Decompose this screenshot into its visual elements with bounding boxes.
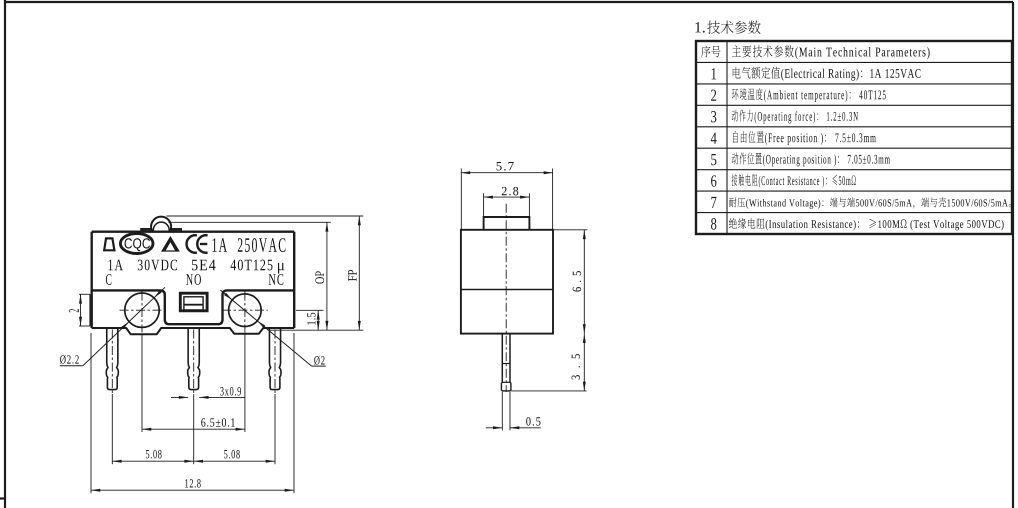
- mounting hole left: [125, 293, 159, 327]
- plunger inner arc: [153, 222, 169, 231]
- parameters table grid: [696, 41, 1012, 234]
- pin 2 (NO terminal): [188, 328, 200, 390]
- hole right centerlines: [222, 309, 268, 311]
- button side tab left: [141, 229, 151, 232]
- dimension 5.08 right: [194, 460, 275, 462]
- triangle certification mark: [161, 236, 180, 252]
- terminal label NC: [269, 274, 284, 285]
- dimension 0.5 pin width side: [501, 392, 503, 430]
- label diameter 2: [314, 356, 324, 365]
- extension line body bottom right: [268, 329, 364, 331]
- dimension 5.7 overall width side: [460, 169, 462, 230]
- side view button: [484, 217, 530, 230]
- extension lines pin centers: [111, 394, 113, 464]
- table row 6: [711, 175, 716, 186]
- dimension 12.8 overall width: [91, 489, 294, 491]
- dimension FP: [358, 216, 360, 330]
- table row 8: [711, 218, 716, 229]
- extension lines hole centers: [141, 334, 143, 432]
- CQC logo oval: [120, 234, 153, 254]
- switch body front view outline: [92, 232, 295, 328]
- button side tab right: [172, 229, 182, 232]
- table title 1. technical parameters: [695, 22, 704, 32]
- NO window: [180, 293, 207, 311]
- pin 1 (C terminal): [106, 328, 118, 390]
- pin 3 (NC terminal): [269, 328, 281, 390]
- hole right: [229, 294, 262, 327]
- hole diameter leader 2.2: [154, 290, 162, 298]
- extension lines body edges: [90, 333, 92, 493]
- dimension 6.5 body height side: [554, 229, 588, 231]
- dimension 3.5 pin length side: [511, 390, 586, 392]
- dimension 1.5 right side: [296, 309, 324, 311]
- table row 4: [711, 133, 717, 144]
- dimension 2.8 button width: [483, 193, 485, 217]
- terminal label C: [106, 274, 111, 285]
- terminal label NO: [186, 274, 201, 285]
- dimension 6.5 +/-0.1: [142, 428, 245, 430]
- extension line operating position top: [169, 221, 331, 223]
- base outline with middle recess: [92, 290, 295, 324]
- table row 7: [711, 197, 716, 208]
- table row 2: [711, 90, 716, 101]
- hole diameter leader 2: [224, 293, 232, 300]
- extension line free position top: [167, 215, 364, 217]
- table header row: [701, 46, 720, 58]
- dimension OP: [326, 222, 328, 330]
- side view middle line: [461, 289, 553, 291]
- certification trapezoid symbol: [104, 238, 114, 250]
- pin 1 centerline: [111, 330, 113, 395]
- dimension 3x0.9 pin width: [171, 396, 188, 398]
- dimension 2 left side: [79, 293, 90, 295]
- plunger button dome: [151, 217, 171, 232]
- marking text 1A 30VDC 5E4 40T125u: [109, 260, 123, 271]
- side view body: [461, 230, 553, 334]
- table row 1: [712, 68, 716, 79]
- marking text 1A 250VAC: [213, 238, 228, 252]
- hole left centerlines: [120, 309, 165, 311]
- CQC logo text: [125, 238, 151, 251]
- left side step (2mm tab): [89, 294, 91, 326]
- CE mark: [187, 235, 197, 252]
- pin 3 centerline: [274, 330, 276, 395]
- table row 3: [711, 111, 716, 122]
- label diameter 2.2: [60, 355, 79, 364]
- table row 5: [711, 154, 716, 165]
- pin 2 centerline: [193, 330, 195, 395]
- side view pin: [501, 334, 503, 383]
- dimension 5.08 left: [112, 460, 193, 462]
- side view centerline: [505, 204, 507, 392]
- body bottom edge with standoff bumps: [92, 328, 295, 334]
